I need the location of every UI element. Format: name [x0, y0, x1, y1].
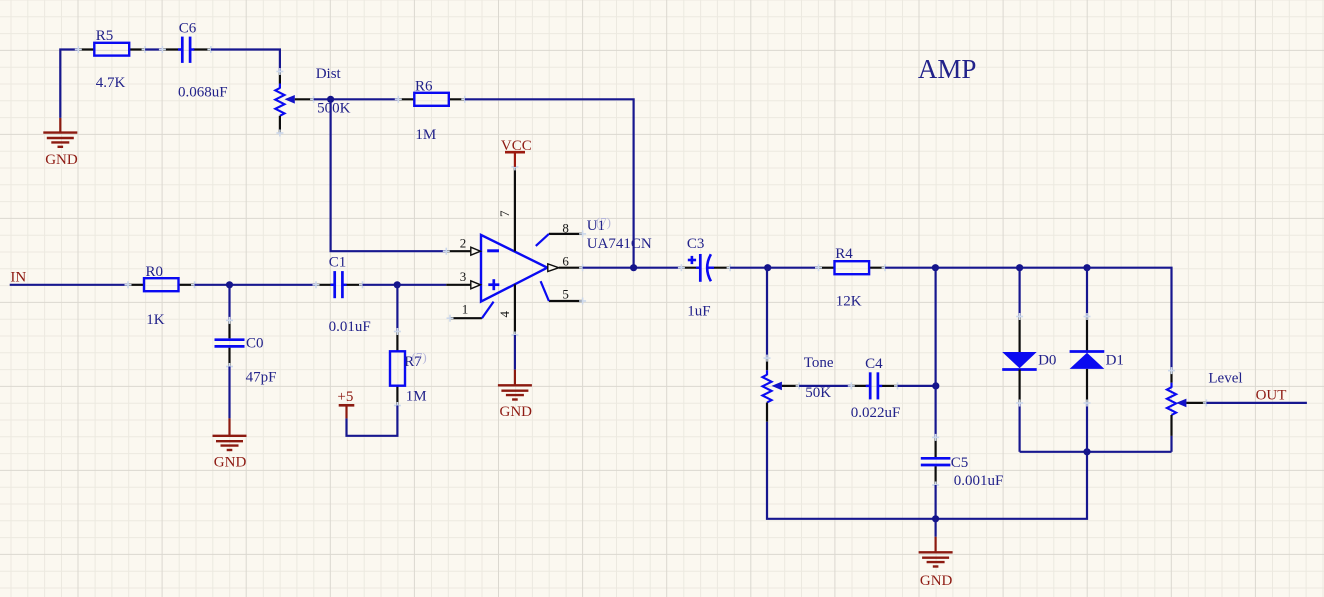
svg-text:Dist: Dist	[316, 66, 342, 82]
wire C6 to Dist pot	[211, 50, 280, 72]
svg-text:0.01uF: 0.01uF	[329, 319, 371, 335]
svg-text:0.001uF: 0.001uF	[954, 473, 1004, 489]
pin 4	[514, 284, 516, 335]
resistor R7	[390, 328, 427, 409]
node C junction	[327, 96, 334, 103]
wire node A to C1	[230, 284, 317, 286]
wire node B to op-amp pin3	[397, 284, 446, 286]
wiper arrow of Level	[1176, 399, 1186, 408]
svg-text:R5: R5	[96, 28, 114, 44]
svg-text:4: 4	[497, 310, 512, 317]
pin 3	[446, 284, 471, 286]
wire node F to node G	[935, 267, 1019, 269]
svg-text:12K: 12K	[836, 294, 862, 310]
diode D0	[1002, 268, 1056, 452]
capacitor C3 polarized	[678, 236, 734, 320]
capacitor C0	[215, 317, 277, 386]
wiper arrow of Tone	[772, 382, 782, 391]
svg-text:1M: 1M	[415, 127, 436, 143]
wire node C down and right to op-amp pin2	[331, 99, 447, 251]
wire node A down to C0	[228, 284, 230, 321]
svg-text:IN: IN	[10, 270, 26, 286]
pin 2	[446, 250, 471, 252]
node D junction (feedback)	[630, 264, 637, 271]
svg-text:6: 6	[562, 254, 569, 269]
svg-text:R6: R6	[415, 78, 433, 94]
node G junction (D0)	[1016, 264, 1023, 271]
wire node F down through node I to C5	[934, 268, 936, 438]
wire node E to R4	[768, 267, 819, 269]
minus mark	[487, 249, 499, 252]
wire R7 to +5	[347, 406, 398, 436]
pin 6 output	[548, 264, 559, 272]
svg-text:GND: GND	[45, 152, 78, 168]
ground GND (bottom)	[919, 552, 953, 566]
svg-text:UA741CN: UA741CN	[587, 236, 652, 252]
svg-text:C4: C4	[865, 356, 883, 372]
wire node G to node H	[1020, 267, 1087, 269]
wire Level wiper to OUT	[1206, 402, 1307, 404]
node E junction	[764, 264, 771, 271]
wire C3 to node E	[730, 267, 768, 269]
potentiometer Level	[1167, 367, 1243, 452]
svg-text:R0: R0	[146, 264, 164, 280]
pin 1	[450, 317, 482, 319]
svg-text:500K: 500K	[317, 101, 351, 117]
power port VCC	[501, 138, 532, 167]
diode rail: wire D0 bottom to Level pot bottom	[1020, 451, 1172, 453]
wire Dist wiper to node C	[314, 98, 331, 100]
wire op-amp pin4 to ground	[514, 335, 516, 370]
svg-text:8: 8	[562, 220, 569, 235]
svg-text:50K: 50K	[805, 385, 831, 401]
svg-text:1M: 1M	[406, 389, 427, 405]
node J junction (bottom rail)	[932, 515, 939, 522]
svg-text:D0: D0	[1038, 353, 1056, 369]
wire C1 to node B	[363, 284, 398, 286]
wire node E down to Tone pot	[766, 268, 768, 358]
power port +5	[337, 389, 354, 419]
svg-text:3: 3	[460, 269, 467, 284]
pin 8	[549, 233, 583, 235]
resistor R5	[75, 28, 149, 91]
node B junction	[394, 281, 401, 288]
wire R0 to node A	[195, 284, 230, 286]
svg-text:C1: C1	[329, 255, 347, 271]
node K junction (rail / D1)	[1083, 448, 1090, 455]
resistor R6	[395, 78, 469, 143]
svg-text:Level: Level	[1208, 371, 1242, 387]
pin 5	[549, 300, 583, 302]
wire C4 to node I	[898, 385, 936, 387]
pin 7	[514, 167, 516, 252]
svg-text:C5: C5	[951, 455, 969, 471]
svg-text:47pF: 47pF	[246, 370, 277, 386]
svg-text:1uF: 1uF	[687, 304, 710, 320]
capacitor C5	[921, 434, 1003, 489]
wire node H to Level pot	[1087, 268, 1172, 371]
ground GND (top left)	[43, 133, 77, 147]
capacitor C1	[313, 255, 371, 336]
svg-text:GND: GND	[214, 455, 247, 471]
svg-text:C6: C6	[179, 21, 197, 37]
wire C5 to node J	[934, 485, 936, 519]
node F junction	[932, 264, 939, 271]
ground GND (C0)	[213, 436, 247, 450]
wire R6 to op-amp output node	[465, 99, 634, 267]
wire node B down to R7	[396, 285, 398, 332]
wire Tone wiper to C4	[799, 385, 851, 387]
wiper arrow of Dist	[285, 95, 295, 104]
svg-text:Tone: Tone	[804, 355, 834, 371]
plus mark	[488, 283, 499, 286]
svg-text:C0: C0	[246, 336, 264, 352]
svg-text:(7): (7)	[412, 350, 427, 365]
op-amp body triangle	[481, 235, 547, 302]
node I junction	[932, 382, 939, 389]
wire node C to R6	[331, 98, 399, 100]
node A junction	[226, 281, 233, 288]
op-amp U1 UA741CN	[443, 163, 652, 338]
svg-text:4.7K: 4.7K	[96, 75, 126, 91]
svg-text:D1: D1	[1106, 353, 1124, 369]
svg-text:GND: GND	[500, 404, 533, 420]
resistor R4	[815, 246, 889, 310]
svg-text:(7): (7)	[596, 215, 611, 230]
potentiometer Dist 500K	[275, 66, 350, 137]
resistor R0	[125, 264, 199, 328]
ground GND (op-amp)	[498, 385, 532, 399]
svg-text:OUT: OUT	[1256, 387, 1287, 403]
svg-text:0.068uF: 0.068uF	[178, 85, 228, 101]
svg-text:AMP: AMP	[918, 54, 977, 84]
node H junction (D1)	[1083, 264, 1090, 271]
capacitor C6	[159, 21, 228, 101]
wire R5 to C6	[145, 48, 162, 50]
wire Tone bottom to bottom rail	[767, 422, 1087, 519]
capacitor C4	[848, 356, 901, 421]
svg-text:1K: 1K	[146, 312, 165, 328]
svg-text:0.022uF: 0.022uF	[851, 405, 901, 421]
svg-text:1: 1	[462, 302, 469, 317]
svg-text:+5: +5	[337, 389, 353, 405]
svg-text:5: 5	[562, 287, 569, 302]
svg-text:7: 7	[497, 210, 512, 217]
wire IN to R0	[10, 284, 128, 286]
svg-text:2: 2	[460, 235, 467, 250]
potentiometer Tone 50K	[762, 355, 834, 422]
svg-text:C3: C3	[687, 236, 705, 252]
wire op-amp pin6 to C3	[583, 267, 682, 269]
wire R4 to node F	[885, 267, 935, 269]
wire node J to ground	[934, 519, 936, 537]
wire GND up to R5	[59, 118, 61, 133]
diode D1	[1070, 268, 1124, 452]
svg-text:R4: R4	[835, 246, 853, 262]
svg-text:GND: GND	[920, 573, 953, 589]
wire C0 to ground	[228, 367, 230, 419]
